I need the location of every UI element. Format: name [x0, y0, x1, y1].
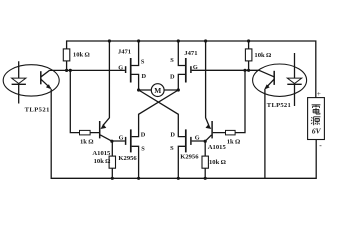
svg-text:6V: 6V	[312, 127, 322, 136]
svg-text:J471: J471	[118, 49, 131, 56]
svg-text:A1015: A1015	[208, 144, 227, 151]
svg-text:TLP521: TLP521	[25, 106, 50, 113]
svg-text:10k Ω: 10k Ω	[254, 52, 271, 59]
svg-text:D: D	[170, 132, 175, 139]
svg-text:G: G	[118, 64, 123, 71]
svg-text:K2956: K2956	[118, 155, 137, 162]
svg-text:10k Ω: 10k Ω	[209, 159, 226, 166]
svg-text:D: D	[142, 73, 147, 80]
svg-text:TLP521: TLP521	[267, 102, 291, 109]
svg-text:D: D	[141, 131, 146, 138]
svg-text:S: S	[141, 58, 145, 65]
svg-text:G: G	[193, 64, 198, 71]
svg-text:10k Ω: 10k Ω	[73, 52, 90, 59]
svg-text:S: S	[170, 145, 174, 152]
svg-text:+: +	[317, 90, 321, 98]
svg-text:1k Ω: 1k Ω	[227, 138, 241, 145]
svg-text:1k Ω: 1k Ω	[80, 139, 94, 146]
svg-text:K2956: K2956	[180, 154, 199, 161]
svg-text:J471: J471	[184, 50, 197, 57]
svg-text:A1015: A1015	[92, 150, 111, 157]
svg-text:10k Ω: 10k Ω	[94, 158, 111, 165]
svg-text:S: S	[141, 145, 145, 152]
svg-text:D: D	[170, 73, 175, 80]
svg-text:M: M	[154, 86, 161, 95]
svg-text:G: G	[195, 134, 200, 141]
svg-text:S: S	[170, 57, 174, 64]
svg-text:G: G	[119, 134, 124, 141]
